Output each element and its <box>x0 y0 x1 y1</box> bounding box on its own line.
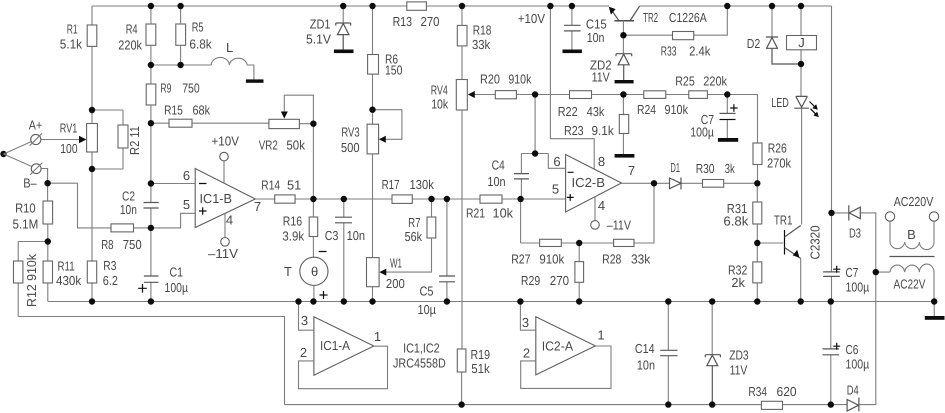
transistor TR1 <box>757 242 783 244</box>
transistor TR2 <box>615 20 635 22</box>
svg-text:C14: C14 <box>635 341 655 356</box>
resistor R30 <box>703 180 724 188</box>
capacitor C15 <box>571 6 573 50</box>
svg-text:130k: 130k <box>410 177 435 192</box>
wire R2 jogs <box>92 110 123 169</box>
wire left column x92 <box>91 6 93 302</box>
svg-text:RV3: RV3 <box>341 125 359 140</box>
svg-text:10n: 10n <box>637 357 655 372</box>
svg-text:A+: A+ <box>29 118 42 133</box>
resistor R29 <box>578 243 580 302</box>
wire R20 to R22 <box>516 94 569 96</box>
svg-text:100µ: 100µ <box>846 357 870 372</box>
resistor R11 <box>43 261 52 283</box>
resistor R19 <box>457 349 466 372</box>
svg-text:R20: R20 <box>480 72 500 87</box>
svg-text:R25: R25 <box>675 74 695 89</box>
resistor R14 <box>255 198 313 200</box>
svg-text:220k: 220k <box>703 74 727 89</box>
svg-text:750: 750 <box>123 237 142 252</box>
svg-text:6.8k: 6.8k <box>723 214 749 229</box>
node VR2 and signal run dots <box>310 121 316 127</box>
capacitor C6 <box>830 302 832 405</box>
RV3 wiper arrow <box>373 110 402 140</box>
ground (C15) <box>563 50 582 54</box>
svg-text:11V: 11V <box>730 363 748 378</box>
svg-text:270k: 270k <box>767 156 792 171</box>
svg-text:R3: R3 <box>103 258 116 273</box>
wire VR2 node down to R14 node <box>312 124 314 199</box>
svg-text:AC220V: AC220V <box>894 194 934 209</box>
svg-text:6: 6 <box>553 154 560 169</box>
RV4 wiper arrow <box>472 94 495 96</box>
svg-text:5.1M: 5.1M <box>13 217 39 232</box>
svg-text:750: 750 <box>182 81 200 96</box>
svg-text:T: T <box>284 264 292 279</box>
capacitor C3 <box>343 199 345 302</box>
relay J <box>800 6 802 64</box>
node bottom rail dots <box>458 401 464 407</box>
ground (R23) <box>615 154 635 158</box>
svg-text:R9: R9 <box>160 81 171 96</box>
svg-text:IC2-B: IC2-B <box>572 175 606 190</box>
resistor R7 <box>431 199 433 217</box>
capacitor C5 <box>446 199 448 302</box>
svg-text:W1: W1 <box>390 256 402 271</box>
svg-text:R30: R30 <box>696 161 715 176</box>
wire y65 to inductor <box>151 64 211 66</box>
resistor R12 <box>14 261 23 283</box>
resistor R23 <box>622 95 624 155</box>
svg-text:270: 270 <box>550 273 569 288</box>
svg-text:D1: D1 <box>671 160 681 175</box>
svg-text:R4: R4 <box>126 22 138 37</box>
wire R20 junction rail down <box>534 95 536 154</box>
node R20 rail dots <box>532 91 538 97</box>
node output and TR1 dots <box>651 180 657 186</box>
svg-text:RV4: RV4 <box>431 82 448 97</box>
wire IC2-B output <box>622 182 655 184</box>
wire R25 to R26 <box>727 95 757 144</box>
svg-text:5.1V: 5.1V <box>306 32 331 47</box>
IC1-B -11V pin4 <box>224 214 226 238</box>
diode D2 <box>771 6 773 37</box>
wire R4 R5 stubs <box>151 6 181 65</box>
resistor R34 <box>761 401 782 409</box>
svg-text:43k: 43k <box>587 104 605 119</box>
svg-text:3: 3 <box>301 313 308 328</box>
node ground rail dots <box>295 298 301 304</box>
wire IC1-B pin5 jog <box>151 213 195 228</box>
node left column dots <box>89 107 95 113</box>
svg-text:150: 150 <box>385 62 402 77</box>
wire B- to R10 <box>47 183 49 241</box>
svg-text:TR2: TR2 <box>643 10 658 25</box>
transformer primary terminals <box>885 212 894 221</box>
svg-text:100µ: 100µ <box>690 125 714 140</box>
svg-text:B–: B– <box>23 176 37 191</box>
svg-text:620: 620 <box>777 384 797 399</box>
op-amp IC1-A <box>314 317 374 375</box>
op-amp IC2-B <box>566 155 622 213</box>
svg-text:R28: R28 <box>602 252 621 267</box>
resistor R33 <box>623 6 727 35</box>
potentiometer VR2 <box>269 119 300 128</box>
svg-text:2: 2 <box>300 345 307 360</box>
svg-text:100µ: 100µ <box>846 280 870 295</box>
svg-text:56k: 56k <box>405 229 423 244</box>
svg-text:R34: R34 <box>748 384 767 399</box>
inductor L <box>211 57 254 79</box>
input terminal node <box>0 151 6 157</box>
wire IC2-A pin2 output loop <box>521 346 611 388</box>
svg-text:51k: 51k <box>471 361 490 376</box>
svg-text:R23: R23 <box>564 123 584 138</box>
svg-text:LED: LED <box>771 95 789 110</box>
wire R8 to node <box>134 227 151 229</box>
svg-text:R17: R17 <box>382 177 400 192</box>
svg-text:270: 270 <box>421 14 440 29</box>
svg-text:ZD3: ZD3 <box>729 348 748 363</box>
wire top rail left section <box>92 5 832 7</box>
svg-text:D3: D3 <box>849 226 861 241</box>
svg-text:D4: D4 <box>847 383 859 398</box>
svg-text:1: 1 <box>374 329 381 344</box>
svg-text:ZD1: ZD1 <box>310 17 331 32</box>
svg-text:5: 5 <box>183 197 190 212</box>
svg-text:33k: 33k <box>472 37 491 52</box>
wire R9 stubs <box>150 65 152 123</box>
svg-text:10n: 10n <box>587 30 605 45</box>
transformer primary winding <box>890 221 934 249</box>
svg-text:4: 4 <box>226 213 233 228</box>
wire IC1-B pin6 <box>151 183 195 185</box>
svg-text:910k: 910k <box>665 102 689 117</box>
svg-text:100µ: 100µ <box>165 280 189 295</box>
resistor R27 <box>540 239 562 246</box>
op-amp IC2-A <box>536 317 596 375</box>
svg-text:RV1: RV1 <box>60 120 78 135</box>
svg-text:JRC4558D: JRC4558D <box>393 356 446 371</box>
wire input diagonals <box>4 142 32 167</box>
svg-text:IC1-B: IC1-B <box>200 191 233 206</box>
svg-text:C3: C3 <box>325 228 339 243</box>
svg-text:TR1: TR1 <box>774 213 793 228</box>
svg-text:3: 3 <box>522 315 529 330</box>
wire main signal run y199 <box>313 198 565 200</box>
resistor R28 <box>614 239 634 246</box>
svg-text:R11: R11 <box>58 259 75 274</box>
svg-text:R7: R7 <box>408 215 420 230</box>
wire bottom rail y404.6 <box>285 404 848 406</box>
svg-text:R21: R21 <box>466 206 485 221</box>
svg-text:9.1k: 9.1k <box>592 123 615 138</box>
svg-text:8: 8 <box>598 154 605 169</box>
svg-text:50k: 50k <box>286 138 305 153</box>
svg-text:R18: R18 <box>473 22 492 37</box>
wire R10 bottom junction <box>18 242 48 317</box>
svg-text:B: B <box>907 227 916 242</box>
resistor R15 <box>169 119 192 127</box>
wire right rail from top <box>831 6 833 213</box>
svg-text:6.2: 6.2 <box>103 273 118 288</box>
svg-text:10k: 10k <box>493 206 514 221</box>
svg-text:R22: R22 <box>558 104 578 119</box>
W1 wiper arrow <box>385 238 432 272</box>
svg-text:θ: θ <box>311 264 318 279</box>
svg-text:10k: 10k <box>431 97 448 112</box>
IC2-B -11V pin4 <box>594 197 596 221</box>
svg-text:68k: 68k <box>193 103 211 118</box>
resistor R20 <box>495 91 516 99</box>
resistor R10 <box>43 201 53 224</box>
IC1-B +10V pin <box>223 161 225 183</box>
transformer secondary winding <box>876 264 934 301</box>
resistor R26 <box>753 143 762 165</box>
svg-text:D2: D2 <box>747 36 761 51</box>
svg-text:–11V: –11V <box>208 246 238 261</box>
terminal B- <box>31 164 41 174</box>
svg-text:6: 6 <box>183 168 190 183</box>
svg-text:R14: R14 <box>261 177 280 192</box>
svg-text:–11V: –11V <box>607 218 631 233</box>
resistor R1 <box>87 25 97 46</box>
diode D1 <box>654 182 703 184</box>
resistor R9 <box>146 84 156 105</box>
thermistor T <box>300 257 328 285</box>
capacitor C7 (relay side) <box>726 95 728 139</box>
svg-text:2.4k: 2.4k <box>689 44 711 59</box>
potentiometer RV4 <box>461 46 463 349</box>
wire IC2-B feedback <box>521 183 654 243</box>
svg-text:33k: 33k <box>631 252 651 267</box>
resistor R22 <box>570 91 592 99</box>
wire +10V rail to pin8 <box>550 6 594 169</box>
svg-text:R1: R1 <box>67 21 78 36</box>
svg-text:R5: R5 <box>192 19 204 34</box>
zener ZD2 <box>622 35 624 54</box>
resistor R18 <box>461 6 463 25</box>
wire secondary to ground <box>933 302 935 317</box>
svg-text:R13: R13 <box>393 14 412 29</box>
svg-text:VR2: VR2 <box>259 138 278 153</box>
svg-text:5: 5 <box>552 182 559 197</box>
wire IC2-B pin6 node <box>521 154 565 169</box>
svg-text:C1226A: C1226A <box>669 10 707 25</box>
op-amp IC1-B <box>195 169 255 228</box>
ground (C7) <box>718 138 738 142</box>
wire left rail to C2 <box>150 123 152 301</box>
wire R12 feedback line <box>18 317 284 405</box>
svg-text:10µ: 10µ <box>418 302 437 317</box>
resistor R24 <box>644 91 666 99</box>
LED <box>800 64 802 96</box>
svg-text:7: 7 <box>254 199 261 214</box>
svg-text:C5: C5 <box>420 284 434 299</box>
svg-text:R24: R24 <box>637 102 656 117</box>
svg-text:C4: C4 <box>492 158 505 173</box>
diode D3 <box>832 213 876 272</box>
resistor R3 <box>87 261 96 283</box>
svg-text:3.9k: 3.9k <box>282 228 304 243</box>
potentiometer RV1 <box>87 124 98 153</box>
svg-text:910k: 910k <box>508 72 531 87</box>
resistor R25 <box>666 94 728 96</box>
svg-text:500: 500 <box>341 140 360 155</box>
resistor R4 <box>146 24 156 45</box>
resistor R2 <box>118 125 128 148</box>
svg-text:6.8k: 6.8k <box>189 36 212 51</box>
svg-text:1: 1 <box>597 328 604 343</box>
capacitor C1 <box>144 276 159 282</box>
ground (inductor) <box>246 79 264 82</box>
svg-text:10n: 10n <box>120 202 137 217</box>
resistor R17 <box>392 195 412 204</box>
svg-text:R15: R15 <box>164 103 183 118</box>
wire IC2-A pin3 <box>520 302 535 331</box>
svg-text:R10: R10 <box>15 201 35 216</box>
svg-text:+10V: +10V <box>212 134 240 149</box>
node y65 dots <box>148 62 154 68</box>
svg-text:R33: R33 <box>661 44 677 59</box>
resistor R6 <box>372 6 374 110</box>
svg-text:C1: C1 <box>170 264 184 279</box>
svg-text:R16: R16 <box>283 213 302 228</box>
wire IC1-A pin3 <box>299 302 314 331</box>
svg-text:11V: 11V <box>592 70 610 85</box>
terminal A+ <box>31 134 41 144</box>
svg-text:IC1,IC2: IC1,IC2 <box>403 340 440 355</box>
svg-text:910k: 910k <box>539 252 564 267</box>
resistor R21 <box>480 195 502 203</box>
svg-text:2: 2 <box>523 346 530 361</box>
svg-text:R12 910k: R12 910k <box>24 254 39 307</box>
potentiometer W1 <box>367 258 380 287</box>
svg-text:C6: C6 <box>846 342 859 357</box>
wire R22 to R24 <box>592 94 644 96</box>
wire IC1-A pin2 output loop <box>299 346 388 389</box>
resistor R31 <box>756 183 758 243</box>
svg-text:2k: 2k <box>731 275 745 290</box>
svg-text:+10V: +10V <box>518 11 545 26</box>
diode D4 <box>847 398 859 412</box>
svg-text:R8: R8 <box>101 237 113 252</box>
capacitor C14 <box>667 302 669 405</box>
node top rail dots <box>148 3 154 9</box>
svg-text:220k: 220k <box>118 37 142 52</box>
svg-text:IC2-A: IC2-A <box>542 339 574 354</box>
svg-text:5.1k: 5.1k <box>60 36 83 51</box>
svg-text:51: 51 <box>287 177 301 192</box>
svg-text:J: J <box>798 35 805 50</box>
capacitor C4 <box>520 154 522 200</box>
svg-text:10n: 10n <box>347 228 366 243</box>
wire R15 VR2 run y123 <box>151 122 314 125</box>
svg-text:7: 7 <box>628 163 635 178</box>
svg-text:C2320: C2320 <box>808 226 823 260</box>
svg-text:C7: C7 <box>846 265 859 280</box>
capacitor C2 <box>144 203 159 209</box>
svg-text:R26: R26 <box>768 140 787 155</box>
resistor R5 <box>176 24 186 45</box>
svg-text:430k: 430k <box>56 273 82 288</box>
zener ZD3 <box>711 302 713 355</box>
resistor R16 <box>312 199 314 257</box>
capacitor C7 (supply) <box>831 213 833 302</box>
zener ZD1 <box>342 6 344 23</box>
svg-text:3k: 3k <box>725 161 735 176</box>
svg-text:L: L <box>226 40 233 55</box>
svg-text:200: 200 <box>386 276 405 291</box>
resistor R8 <box>111 224 134 232</box>
svg-text:IC1-A: IC1-A <box>320 338 350 353</box>
node relay dots <box>798 61 804 67</box>
svg-text:R29: R29 <box>521 273 540 288</box>
potentiometer RV3 <box>372 110 374 258</box>
svg-text:R19: R19 <box>471 347 491 362</box>
resistor R32 <box>756 243 758 302</box>
wire A+ to RV1 wiper <box>41 139 80 141</box>
resistor R13 <box>407 2 427 10</box>
svg-text:AC22V: AC22V <box>894 277 926 292</box>
svg-text:4: 4 <box>598 198 605 213</box>
transformer core <box>890 256 935 258</box>
wire B- jog <box>41 169 111 228</box>
svg-text:100: 100 <box>60 141 77 156</box>
svg-text:R27: R27 <box>511 252 530 267</box>
ground (transformer) <box>925 316 945 320</box>
svg-text:R2 11: R2 11 <box>127 126 142 155</box>
VR2 wiper arrow <box>284 95 313 124</box>
wire ground rail y301.5 <box>48 301 934 303</box>
RV1 wiper arrow <box>79 136 86 143</box>
svg-text:10n: 10n <box>487 174 505 189</box>
